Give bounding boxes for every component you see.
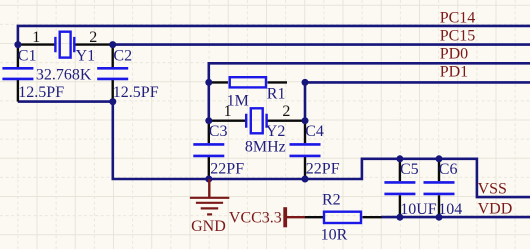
junction at C2/Y1 pin2	[109, 41, 116, 48]
wire net PD1	[305, 82, 530, 120]
capacitor C3	[193, 144, 224, 156]
crystal Y1 pin 1	[18, 43, 55, 45]
svg-text:VDD: VDD	[478, 200, 513, 217]
junction Y2 pin2 node	[302, 117, 309, 124]
crystal Y2	[246, 108, 266, 133]
svg-text:PD1: PD1	[440, 64, 468, 81]
capacitor C1 leads	[17, 45, 19, 102]
capacitor C6 leads	[438, 159, 440, 217]
svg-text:22PF: 22PF	[210, 161, 244, 178]
svg-text:8MHz: 8MHz	[245, 139, 286, 156]
resistor R2	[324, 212, 361, 223]
capacitor C3 leads	[208, 121, 210, 179]
wire net PC15	[113, 43, 530, 46]
resistor R2 pins	[305, 216, 381, 218]
capacitor C4 leads	[304, 121, 306, 179]
crystal Y1	[55, 32, 74, 58]
junction R1 pin2 node	[302, 79, 309, 86]
capacitor C2 leads	[111, 45, 113, 102]
svg-text:12.5PF: 12.5PF	[113, 84, 159, 101]
svg-text:32.768K: 32.768K	[36, 66, 92, 83]
svg-text:R1: R1	[267, 86, 286, 103]
ground GND	[190, 179, 229, 214]
junction at C1/C2 bottom node	[109, 98, 116, 105]
svg-text:R2: R2	[322, 191, 341, 208]
wire net PD0	[209, 63, 530, 120]
wire net PC14	[18, 26, 530, 45]
crystal Y2 pins	[209, 119, 305, 121]
svg-text:2: 2	[282, 103, 290, 120]
capacitor C2	[97, 68, 128, 79]
svg-text:VCC3.3: VCC3.3	[229, 210, 282, 227]
svg-text:PC14: PC14	[440, 9, 476, 26]
junction C5 top rail	[396, 155, 403, 162]
svg-text:2: 2	[89, 29, 97, 46]
capacitor C5	[384, 182, 415, 194]
svg-text:C1: C1	[18, 47, 37, 64]
wire VDD rail	[381, 216, 530, 219]
svg-text:C6: C6	[439, 161, 458, 178]
svg-text:PC15: PC15	[440, 28, 476, 45]
svg-text:PD0: PD0	[440, 46, 468, 63]
power port VCC3.3 bar	[283, 207, 287, 227]
svg-text:12.5PF: 12.5PF	[18, 84, 64, 101]
power port VCC3.3 lead	[285, 216, 305, 218]
svg-text:1M: 1M	[227, 93, 249, 110]
svg-text:C5: C5	[400, 161, 419, 178]
junction C6 top rail	[436, 155, 443, 162]
junction R1 pin1 node	[205, 79, 212, 86]
svg-text:VSS: VSS	[478, 180, 507, 197]
crystal Y1 pin 2	[75, 43, 112, 45]
svg-text:C4: C4	[305, 123, 324, 140]
junction C5 bottom rail	[396, 214, 403, 221]
svg-text:10R: 10R	[321, 226, 348, 243]
svg-text:C3: C3	[209, 123, 228, 140]
junction C6 bottom rail	[436, 214, 443, 221]
svg-text:10UF: 10UF	[400, 201, 437, 218]
svg-text:GND: GND	[191, 218, 226, 235]
svg-text:C2: C2	[113, 47, 132, 64]
resistor R1 pins	[209, 81, 287, 83]
capacitor C5 leads	[399, 159, 401, 217]
capacitor C6	[424, 182, 455, 194]
svg-text:22PF: 22PF	[306, 161, 340, 178]
junction at C1/Y1 pin1	[14, 41, 21, 48]
svg-text:1: 1	[32, 29, 40, 46]
svg-text:Y1: Y1	[76, 47, 96, 64]
capacitor C4	[290, 144, 321, 156]
wire C1/C2 bottom node to GND rail and VSS	[18, 102, 530, 198]
resistor R1	[230, 77, 266, 87]
svg-text:104: 104	[438, 201, 462, 218]
capacitor C1	[2, 68, 33, 79]
junction C4 bottom rail	[302, 176, 309, 183]
junction Y2 pin1 node	[205, 117, 212, 124]
junction C3 bottom rail	[205, 176, 212, 183]
svg-text:Y2: Y2	[266, 123, 286, 140]
